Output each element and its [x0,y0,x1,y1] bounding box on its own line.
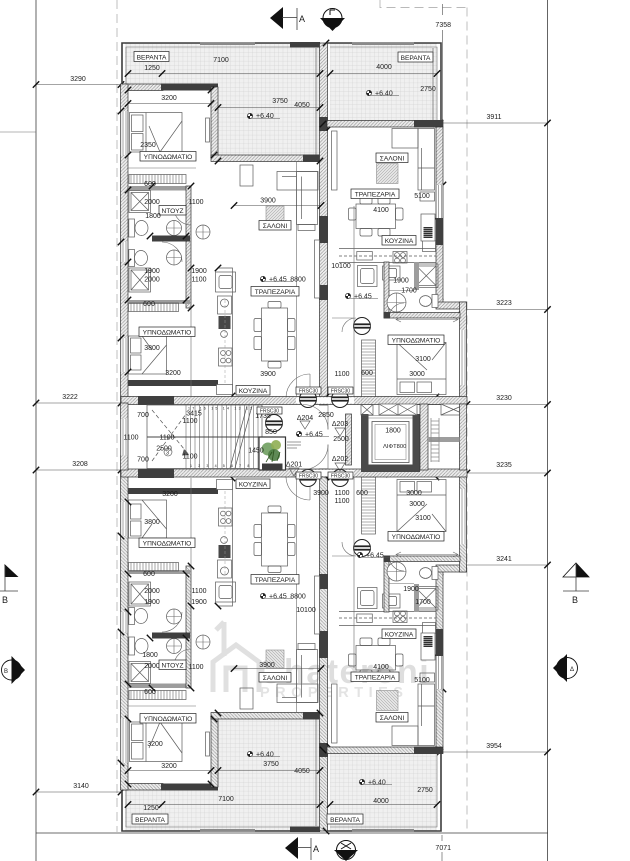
svg-text:ΥΠΝΟΔΩΜΑΤΙΟ: ΥΠΝΟΔΩΜΑΤΙΟ [144,154,193,161]
dim 3954 [440,751,548,753]
wc 1 [129,219,148,237]
svg-text:3415: 3415 [186,411,202,418]
svg-text:+6.40: +6.40 [375,91,393,98]
svg-text:+6.40: +6.40 [256,113,274,120]
svg-text:1700: 1700 [401,288,417,295]
window bump [459,330,467,385]
svg-text:10100: 10100 [331,263,351,270]
svg-text:ΥΠΝΟΔΩΜΑΤΙΟ: ΥΠΝΟΔΩΜΑΤΙΟ [392,534,441,541]
svg-text:ΚΟΥΖΙΝΑ: ΚΟΥΖΙΝΑ [385,632,414,639]
shaft ladder [431,418,439,462]
svg-text:4100: 4100 [373,664,389,671]
tv unit left apt [315,240,320,298]
svg-text:3954: 3954 [486,743,502,750]
svg-text:3230: 3230 [496,395,512,402]
svg-text:3241: 3241 [496,556,512,563]
svg-text:ΝΤΟΥΖ: ΝΤΟΥΖ [161,208,183,215]
svg-text:600: 600 [143,301,155,308]
svg-text:1100: 1100 [159,435,174,442]
party wall between apartments [320,43,328,405]
svg-text:3000: 3000 [406,490,422,497]
tiny note lines [287,442,301,448]
svg-text:1800: 1800 [385,428,401,435]
core top wall [121,397,467,405]
svg-text:+6.45: +6.45 [305,432,323,439]
svg-text:ΣΑΛΟΝΙ: ΣΑΛΟΝΙ [380,156,405,163]
svg-text:1 2 3 4 5 6 7 8: 1 2 3 4 5 6 7 8 [190,464,252,468]
svg-text:3911: 3911 [486,114,501,121]
utility row right apt [358,266,401,287]
svg-text:1700: 1700 [415,599,431,606]
svg-text:7100: 7100 [213,57,229,64]
fridge right apt [421,214,435,241]
window bath1 [120,242,129,262]
svg-text:700: 700 [137,457,149,464]
svg-text:ΥΠΝΟΔΩΜΑΤΙΟ: ΥΠΝΟΔΩΜΑΤΙΟ [143,330,192,337]
svg-text:2850: 2850 [318,412,334,419]
svg-text:ΥΠΝΟΔΩΜΑΤΙΟ: ΥΠΝΟΔΩΜΑΤΙΟ [144,716,193,723]
svg-text:8800: 8800 [290,594,306,601]
rug left apt [266,206,284,224]
svg-text:2500: 2500 [156,446,172,453]
svg-text:3200: 3200 [161,95,177,102]
svg-text:1100: 1100 [334,371,349,378]
svg-text:1800: 1800 [142,652,158,659]
hall drain circle [196,225,210,239]
svg-text:3900: 3900 [260,198,276,205]
bump top wall [436,302,467,309]
svg-text:ΒΕΡΑΝΤΑ: ΒΕΡΑΝΤΑ [135,817,165,824]
dim 7358 vertical [442,4,444,15]
sofa left apt [240,165,318,231]
svg-text:+6.45: +6.45 [354,294,372,301]
shower right apt [415,264,439,288]
lift shaft [361,414,420,472]
svg-text:3000: 3000 [409,501,425,508]
svg-text:2750: 2750 [420,86,436,93]
hall line right apt [332,317,354,319]
left edge stub [0,131,36,133]
svg-text:Δ: Δ [570,667,574,673]
svg-text:2000: 2000 [144,277,160,284]
svg-text:B: B [4,669,8,675]
left outer wall [121,84,129,403]
svg-text:+6.40: +6.40 [368,780,386,787]
door arc entry left apt [286,374,310,397]
top wall of bedroom1 [121,84,163,91]
svg-text:ΤΡΑΠΕΖΑΡΙΑ: ΤΡΑΠΕΖΑΡΙΑ [355,675,396,682]
sofa right apt [392,129,435,202]
bump bottom wall [384,398,467,405]
bedroom2 bottom dark wall [128,380,218,386]
veranda top-right floor [330,43,437,122]
bedroom1 lower line [128,167,196,169]
bath2 bottom wall [128,300,190,304]
svg-text:B: B [2,595,8,605]
svg-text:1100: 1100 [182,454,197,461]
svg-text:ΒΕΡΑΝΤΑ: ΒΕΡΑΝΤΑ [137,55,167,62]
bed 2 [129,336,167,374]
svg-text:1250: 1250 [143,805,159,812]
svg-text:3200: 3200 [165,370,181,377]
svg-text:ΤΡΑΠΕΖΑΡΙΑ: ΤΡΑΠΕΖΑΡΙΑ [255,577,296,584]
shower 1 [129,191,151,213]
svg-text:3200: 3200 [162,491,178,498]
washer bath2 [216,272,236,292]
wc right apt [420,295,439,308]
bath mid wall [186,186,191,308]
svg-text:ΛΙΦΤ800: ΛΙΦΤ800 [383,444,406,450]
bath/bedroom wall right apt [384,313,460,319]
dim 3222 [36,402,121,404]
dark bar between baths [152,236,190,242]
svg-text:3750: 3750 [272,98,288,105]
svg-text:ΚΟΥΖΙΝΑ: ΚΟΥΖΙΝΑ [239,388,268,395]
shower 2 [129,268,151,292]
svg-text:FRSC30: FRSC30 [331,389,350,395]
svg-text:600: 600 [144,689,156,696]
dim 7071 vertical [441,835,443,841]
dim 3140 [36,791,121,793]
wardrobe comb 1 [129,175,186,184]
svg-text:3100: 3100 [415,515,431,522]
svg-text:1450: 1450 [248,448,264,455]
lobby door arcs [303,405,328,430]
stove left apt [219,348,233,366]
svg-text:3900: 3900 [260,371,276,378]
svg-text:3140: 3140 [73,783,89,790]
dining table left apt [254,302,295,369]
svg-text:1250: 1250 [144,65,160,72]
svg-text:3290: 3290 [70,76,86,83]
svg-text:ΤΡΑΠΕΖΑΡΙΑ: ΤΡΑΠΕΖΑΡΙΑ [355,192,396,199]
frsc circles [300,391,317,408]
window bedroom2 [120,338,129,372]
svg-text:2750: 2750 [417,787,433,794]
lintel dark [161,84,218,91]
corridor wall kitchen [190,308,192,396]
svg-text:ΒΕΡΑΝΤΑ: ΒΕΡΑΝΤΑ [401,55,431,62]
svg-text:1900: 1900 [144,599,160,606]
basin right apt [387,293,406,312]
svg-text:+6.45: +6.45 [366,553,384,560]
svg-text:FRSC30: FRSC30 [299,474,318,480]
svg-text:3000: 3000 [409,371,425,378]
svg-text:10100: 10100 [296,607,316,614]
rug right apt [377,164,399,184]
dashed property line left [116,0,118,833]
svg-text:+6.45: +6.45 [269,277,287,284]
compass bottom [334,841,358,861]
shaft closet boxes [361,404,466,415]
svg-text:FRSC30: FRSC30 [299,389,318,395]
column edge line left apt [296,162,298,396]
svg-text:ΣΑΛΟΝΙ: ΣΑΛΟΝΙ [263,675,288,682]
svg-text:4000: 4000 [376,64,392,71]
core bottom wall [121,469,467,477]
door arc bath2 [162,242,182,262]
svg-text:4050: 4050 [294,102,310,109]
svg-text:A: A [313,844,319,854]
svg-text:3800: 3800 [144,519,160,526]
dim 3208 [36,469,121,471]
svg-text:1900: 1900 [144,268,160,275]
svg-text:ΣΑΛΟΝΙ: ΣΑΛΟΝΙ [380,715,405,722]
wall under right veranda [327,121,443,128]
door arc bath1 [174,208,191,225]
section marker B right [563,563,589,577]
svg-text:1100: 1100 [188,199,203,206]
dim 3290 [36,84,121,86]
svg-text:ΒΕΡΑΝΤΑ: ΒΕΡΑΝΤΑ [330,817,360,824]
section arrow A top [270,7,283,29]
slider mark [396,317,458,322]
svg-text:2000: 2000 [144,199,160,206]
svg-text:3200: 3200 [147,741,163,748]
svg-text:4100: 4100 [373,207,389,214]
svg-text:5100: 5100 [414,677,430,684]
svg-text:ΥΠΝΟΔΩΜΑΤΙΟ: ΥΠΝΟΔΩΜΑΤΙΟ [392,338,441,345]
door arc bath right [389,303,404,318]
svg-text:3900: 3900 [313,490,329,497]
dim 3241 [462,564,548,566]
svg-text:3200: 3200 [161,763,177,770]
bath block top wall [128,186,190,191]
tv unit right apt [332,131,338,190]
basin 2 [167,250,182,265]
corner ticks [118,40,466,403]
left boundary line [35,0,37,861]
dining table right apt [349,197,404,237]
svg-text:600: 600 [144,181,156,188]
dim 3235 [467,472,548,474]
veranda top-left floor [125,43,320,85]
svg-text:1900: 1900 [393,278,409,285]
svg-text:FRSC30: FRSC30 [331,474,350,480]
core right walls [420,404,428,470]
left wall at stair landing [121,403,129,470]
svg-text:7071: 7071 [435,845,451,852]
svg-text:1100: 1100 [191,277,206,284]
svg-text:B: B [572,595,578,605]
svg-text:ΚΟΥΖΙΝΑ: ΚΟΥΖΙΝΑ [385,238,414,245]
svg-text:ΥΠΝΟΔΩΜΑΤΙΟ: ΥΠΝΟΔΩΜΑΤΙΟ [143,541,192,548]
tv bedroom1 [206,118,210,142]
dim 3911 [440,122,548,124]
svg-text:3235: 3235 [496,462,512,469]
svg-text:Δ201: Δ201 [286,462,302,469]
basin 1 [167,221,182,236]
svg-text:3800: 3800 [144,345,160,352]
svg-text:8800: 8800 [290,277,306,284]
window living right [436,185,444,218]
right boundary line [547,0,549,861]
svg-text:Δ202: Δ202 [332,456,348,463]
svg-text:3222: 3222 [62,394,78,401]
svg-text:3100: 3100 [415,356,431,363]
bedroom1 right wall [211,87,218,157]
veranda top-left border [122,43,320,85]
svg-text:ΤΡΑΠΕΖΑΡΙΑ: ΤΡΑΠΕΖΑΡΙΑ [255,289,296,296]
svg-text:700: 700 [137,412,149,419]
svg-text:3900: 3900 [259,662,275,669]
bed 1 [130,113,183,153]
svg-text:1100: 1100 [123,435,138,442]
bump right wall [460,302,467,404]
svg-text:1800: 1800 [145,213,161,220]
north compass top [320,9,345,32]
survey bubble right [553,654,578,682]
svg-text:2000: 2000 [144,588,160,595]
bedroom door arc right [342,318,356,332]
veranda L bottom wall [211,155,322,162]
small appliance box [217,385,233,395]
svg-text:3223: 3223 [496,300,512,307]
dashed property line right [466,8,468,834]
svg-text:ΝΤΟΥΖ: ΝΤΟΥΖ [161,663,183,670]
veranda rail dark segment [290,42,320,48]
section marker B left [5,564,19,577]
svg-text:1100: 1100 [334,490,349,497]
veranda border top-right [327,43,441,122]
dashed property line top [380,0,467,8]
right outer wall [436,127,443,303]
dim 3223 [462,309,548,311]
svg-text:A: A [299,14,305,24]
dim 3230 [467,404,548,406]
bottom plot line [36,832,548,834]
svg-text:4000: 4000 [373,798,389,805]
svg-text:850: 850 [265,429,277,436]
svg-text:1100: 1100 [334,498,349,505]
kitchen counter right apt [339,241,436,264]
plant shaft [259,437,286,470]
svg-text:FRSC30: FRSC30 [260,409,279,415]
svg-text:1900: 1900 [191,268,207,275]
svg-text:1100: 1100 [182,418,197,425]
svg-text:1900: 1900 [191,599,207,606]
svg-text:2500: 2500 [333,436,349,443]
delta triangles [300,421,310,429]
bottom half = mirrored copy [118,469,467,834]
window bedroom1 [120,111,129,155]
wardrobe comb right apt [362,340,376,397]
svg-text:1100: 1100 [191,588,206,595]
svg-text:3750: 3750 [263,761,279,768]
svg-text:7100: 7100 [218,796,234,803]
lobby/lift wall [346,414,352,465]
svg-text:7358: 7358 [435,22,451,29]
svg-text:5100: 5100 [414,193,430,200]
svg-text:600: 600 [143,571,155,578]
wc 2 [129,250,148,267]
fridge dark left apt [219,316,231,329]
svg-text:1900: 1900 [403,586,419,593]
svg-text:ΣΑΛΟΝΙ: ΣΑΛΟΝΙ [263,223,288,230]
svg-text:4050: 4050 [294,768,310,775]
wardrobe comb 2 [129,303,179,312]
svg-text:600: 600 [361,370,373,377]
svg-text:3208: 3208 [72,461,88,468]
svg-text:2350: 2350 [140,142,156,149]
svg-text:2000: 2000 [144,663,160,670]
wall kitchen/bath right apt [384,262,389,318]
stair well [147,405,277,469]
svg-text:ΚΟΥΖΙΝΑ: ΚΟΥΖΙΝΑ [239,482,268,489]
section arrow A bottom [285,837,298,859]
svg-text:1100: 1100 [188,664,203,671]
survey bubble left [2,656,26,684]
svg-text:+6.40: +6.40 [256,752,274,759]
svg-text:Δ204: Δ204 [297,415,313,422]
kitchen column left apt [218,268,233,396]
svg-text:Δ203: Δ203 [332,421,348,428]
bed right apt [397,343,446,395]
svg-text:600: 600 [356,490,368,497]
svg-text:+6.45: +6.45 [269,594,287,601]
